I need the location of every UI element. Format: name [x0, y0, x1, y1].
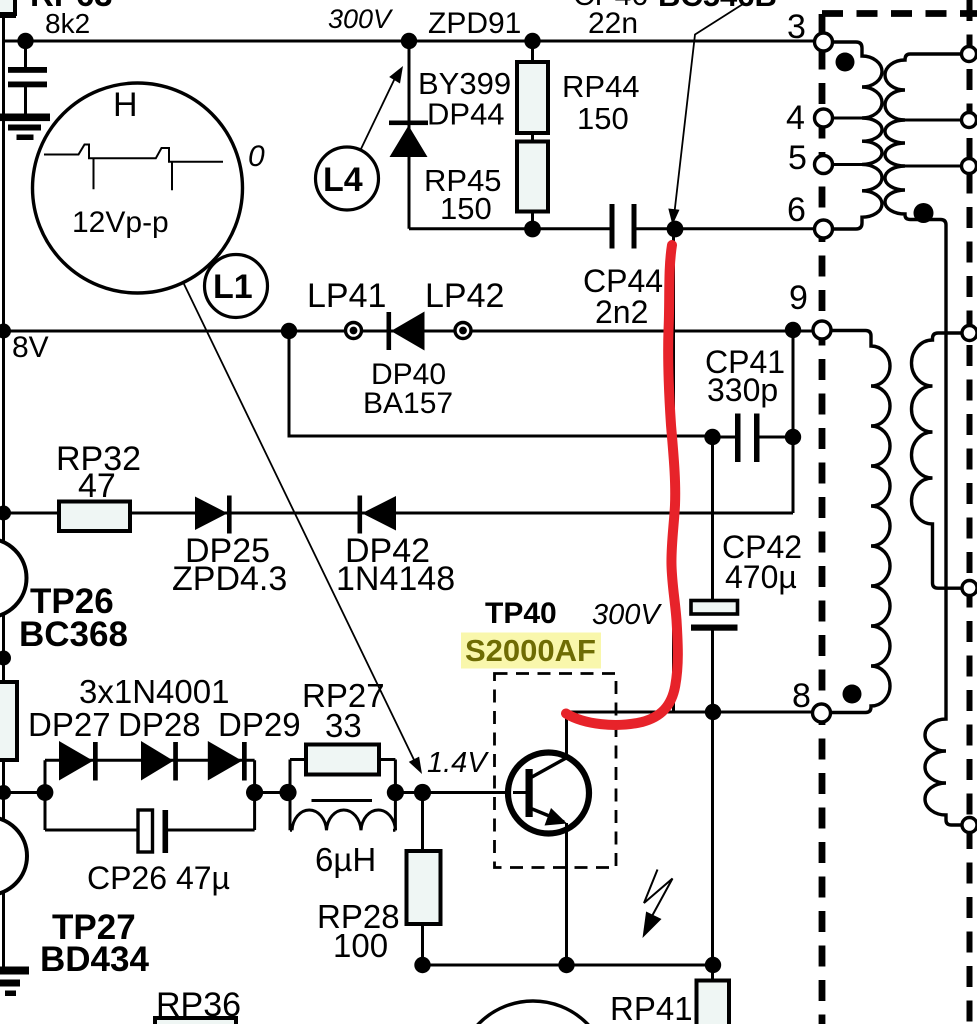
svg-text:DP44: DP44	[427, 97, 505, 132]
svg-text:1.4V: 1.4V	[427, 747, 489, 779]
svg-text:ZPD4.3: ZPD4.3	[172, 560, 287, 598]
svg-text:9: 9	[789, 279, 808, 317]
svg-text:CP46: CP46	[573, 0, 648, 12]
svg-text:S2000AF: S2000AF	[465, 633, 596, 668]
svg-text:BC546B: BC546B	[658, 0, 777, 13]
svg-text:BA157: BA157	[363, 387, 453, 420]
svg-text:6: 6	[787, 191, 806, 229]
svg-text:8k2: 8k2	[45, 8, 90, 39]
svg-text:BD434: BD434	[40, 940, 149, 979]
svg-text:L4: L4	[323, 161, 363, 199]
svg-text:470µ: 470µ	[725, 559, 797, 595]
svg-text:2n2: 2n2	[595, 294, 648, 330]
svg-text:8V: 8V	[12, 331, 49, 364]
svg-text:4: 4	[786, 99, 805, 137]
svg-text:300V: 300V	[592, 599, 662, 631]
svg-text:47: 47	[78, 467, 116, 505]
svg-text:LP41: LP41	[307, 277, 386, 315]
svg-text:H: H	[113, 86, 138, 124]
svg-text:300V: 300V	[328, 4, 394, 34]
svg-text:100: 100	[333, 927, 388, 964]
svg-text:L1: L1	[213, 268, 253, 306]
svg-text:DP27: DP27	[28, 706, 111, 743]
svg-text:33: 33	[325, 707, 362, 744]
svg-text:3x1N4001: 3x1N4001	[79, 673, 229, 710]
svg-text:RP41: RP41	[610, 990, 693, 1024]
svg-text:330p: 330p	[707, 372, 778, 408]
svg-text:DP29: DP29	[218, 706, 301, 743]
svg-text:3: 3	[787, 8, 806, 46]
svg-text:LP42: LP42	[425, 277, 504, 315]
svg-text:5: 5	[788, 139, 807, 177]
svg-text:150: 150	[577, 101, 629, 136]
svg-text:6µH: 6µH	[315, 841, 376, 878]
svg-text:BC368: BC368	[19, 615, 128, 654]
svg-text:RP44: RP44	[562, 69, 640, 104]
svg-text:RP36: RP36	[156, 986, 241, 1024]
svg-text:CP26 47µ: CP26 47µ	[87, 860, 230, 896]
svg-text:150: 150	[440, 191, 492, 226]
svg-text:8: 8	[792, 677, 811, 715]
svg-text:1N4148: 1N4148	[336, 560, 455, 598]
svg-text:DP28: DP28	[118, 706, 201, 743]
svg-text:TP40: TP40	[485, 597, 557, 630]
svg-text:ZPD91: ZPD91	[428, 7, 521, 40]
svg-text:0: 0	[248, 140, 265, 173]
svg-text:12Vp-p: 12Vp-p	[72, 206, 169, 239]
